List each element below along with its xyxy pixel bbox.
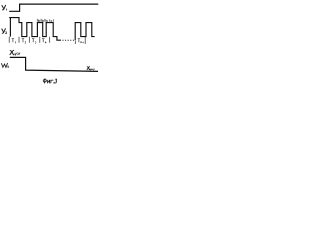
label y1 [2,5,7,10]
annotation t_i glyphs [38,19,52,22]
response waveform step down [10,57,98,71]
waveform y2 right pulses [75,23,94,41]
label W_v [2,63,9,67]
background [0,0,100,87]
label T2 [22,39,26,44]
label x_ust [10,50,20,55]
dotted break in y2 [63,39,75,41]
waveform y2 pulse train [10,18,61,41]
label y2 [2,29,7,34]
label T1 [12,39,16,44]
tall pulse top overhang [9,17,10,19]
waveform y1 [9,4,98,11]
annotation t_i bars [37,19,53,22]
period tick bars T row [9,37,85,44]
label T4 [42,39,46,44]
label T3 [32,39,36,44]
label x_out [87,67,95,71]
caption Fig.3 [43,79,57,83]
label Tn-1 [78,39,84,44]
